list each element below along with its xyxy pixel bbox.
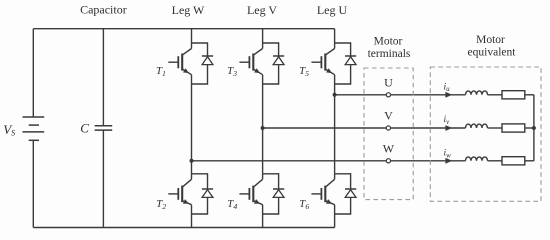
resistor Rv (motor phase resistance) — [502, 124, 525, 132]
svg-text:terminals: terminals — [368, 48, 411, 60]
diode D6 (antiparallel with T6) — [335, 174, 357, 214]
wire: inductor to resistor (U) — [488, 94, 503, 96]
diode D2 (antiparallel with T2) — [192, 174, 214, 214]
wire: leg W bottom (T2 emitter to rail) — [191, 214, 193, 228]
wire: inductor to resistor (V) — [488, 127, 503, 129]
wire: resistor to neutral bus (W) — [525, 160, 534, 162]
wire: motor neutral bus — [533, 95, 535, 161]
svg-text:W: W — [383, 141, 395, 155]
svg-text:Capacitor: Capacitor — [80, 3, 127, 17]
svg-text:Leg V: Leg V — [247, 3, 277, 17]
svg-text:Leg U: Leg U — [317, 3, 348, 17]
diode D5 (antiparallel with T5) — [335, 43, 357, 84]
wire: battery top lead — [32, 29, 34, 117]
terminal W (motor terminal) — [386, 159, 390, 163]
junction: node W (leg W output) — [190, 159, 194, 163]
resistor Ru (motor phase resistance) — [502, 91, 525, 99]
wire: leg U bottom (T6 emitter to rail) — [334, 214, 336, 228]
wire: capacitor top lead — [102, 29, 104, 126]
junction: node V (leg V output) — [261, 126, 265, 130]
svg-text:U: U — [384, 75, 393, 89]
wire: leg V bottom (T4 emitter to rail) — [262, 214, 264, 228]
wire: leg V top (rail to T3) — [262, 29, 264, 43]
wire: leg W top (rail to T1) — [191, 29, 193, 43]
svg-text:Motor: Motor — [476, 34, 505, 46]
svg-text:Leg W: Leg W — [172, 3, 205, 17]
dashed box: motor terminals — [364, 68, 413, 200]
wire: leg U top (rail to T5) — [334, 29, 336, 43]
wire: leg V midpoint (T3 emitter to T4 collector) — [262, 84, 264, 174]
junction: neutral node — [532, 126, 536, 130]
wire: inductor to resistor (W) — [488, 160, 503, 162]
wire: capacitor bottom lead — [102, 130, 104, 227]
dashed box: motor equivalent — [430, 67, 541, 201]
wire: battery bottom lead — [32, 140, 34, 227]
transistor T1 (IGBT) — [168, 43, 191, 84]
wire: negative DC rail (bottom) — [33, 227, 334, 229]
wire: leg W midpoint (T1 emitter to T2 collector) — [191, 84, 193, 174]
transistor T2 (IGBT) — [168, 174, 191, 214]
current arrow iw — [445, 158, 452, 164]
inductor Lu (motor phase inductance) — [466, 91, 488, 95]
svg-text:Motor: Motor — [374, 36, 403, 48]
junction: node U (leg U output) — [333, 93, 337, 97]
terminal U (motor terminal) — [386, 93, 390, 97]
wire: phase U output line — [335, 94, 466, 96]
diode D1 (antiparallel with T1) — [192, 43, 214, 84]
current arrow iv — [445, 125, 452, 131]
battery VS (DC source) — [23, 117, 45, 140]
diode D4 (antiparallel with T4) — [263, 174, 285, 214]
transistor T4 (IGBT) — [239, 174, 262, 214]
terminal V (motor terminal) — [386, 126, 390, 130]
capacitor C — [95, 126, 113, 130]
resistor Rw (motor phase resistance) — [502, 157, 525, 165]
svg-text:C: C — [80, 120, 89, 135]
current arrow iu — [445, 92, 452, 98]
transistor T6 (IGBT) — [311, 174, 334, 214]
transistor T5 (IGBT) — [311, 43, 334, 84]
wire: positive DC rail (top) — [33, 28, 334, 30]
svg-text:V: V — [384, 108, 393, 122]
wire: resistor to neutral bus (U) — [525, 94, 534, 96]
wire: resistor to neutral bus (V) — [525, 127, 534, 129]
transistor T3 (IGBT) — [239, 43, 262, 84]
wire: leg U midpoint (T5 emitter to T6 collector) — [334, 84, 336, 174]
inductor Lv (motor phase inductance) — [466, 124, 488, 128]
svg-text:equivalent: equivalent — [468, 47, 517, 59]
inductor Lw (motor phase inductance) — [466, 157, 488, 161]
diode D3 (antiparallel with T3) — [263, 43, 285, 84]
wire: phase W output line — [192, 160, 466, 162]
wire: phase V output line — [263, 127, 466, 129]
